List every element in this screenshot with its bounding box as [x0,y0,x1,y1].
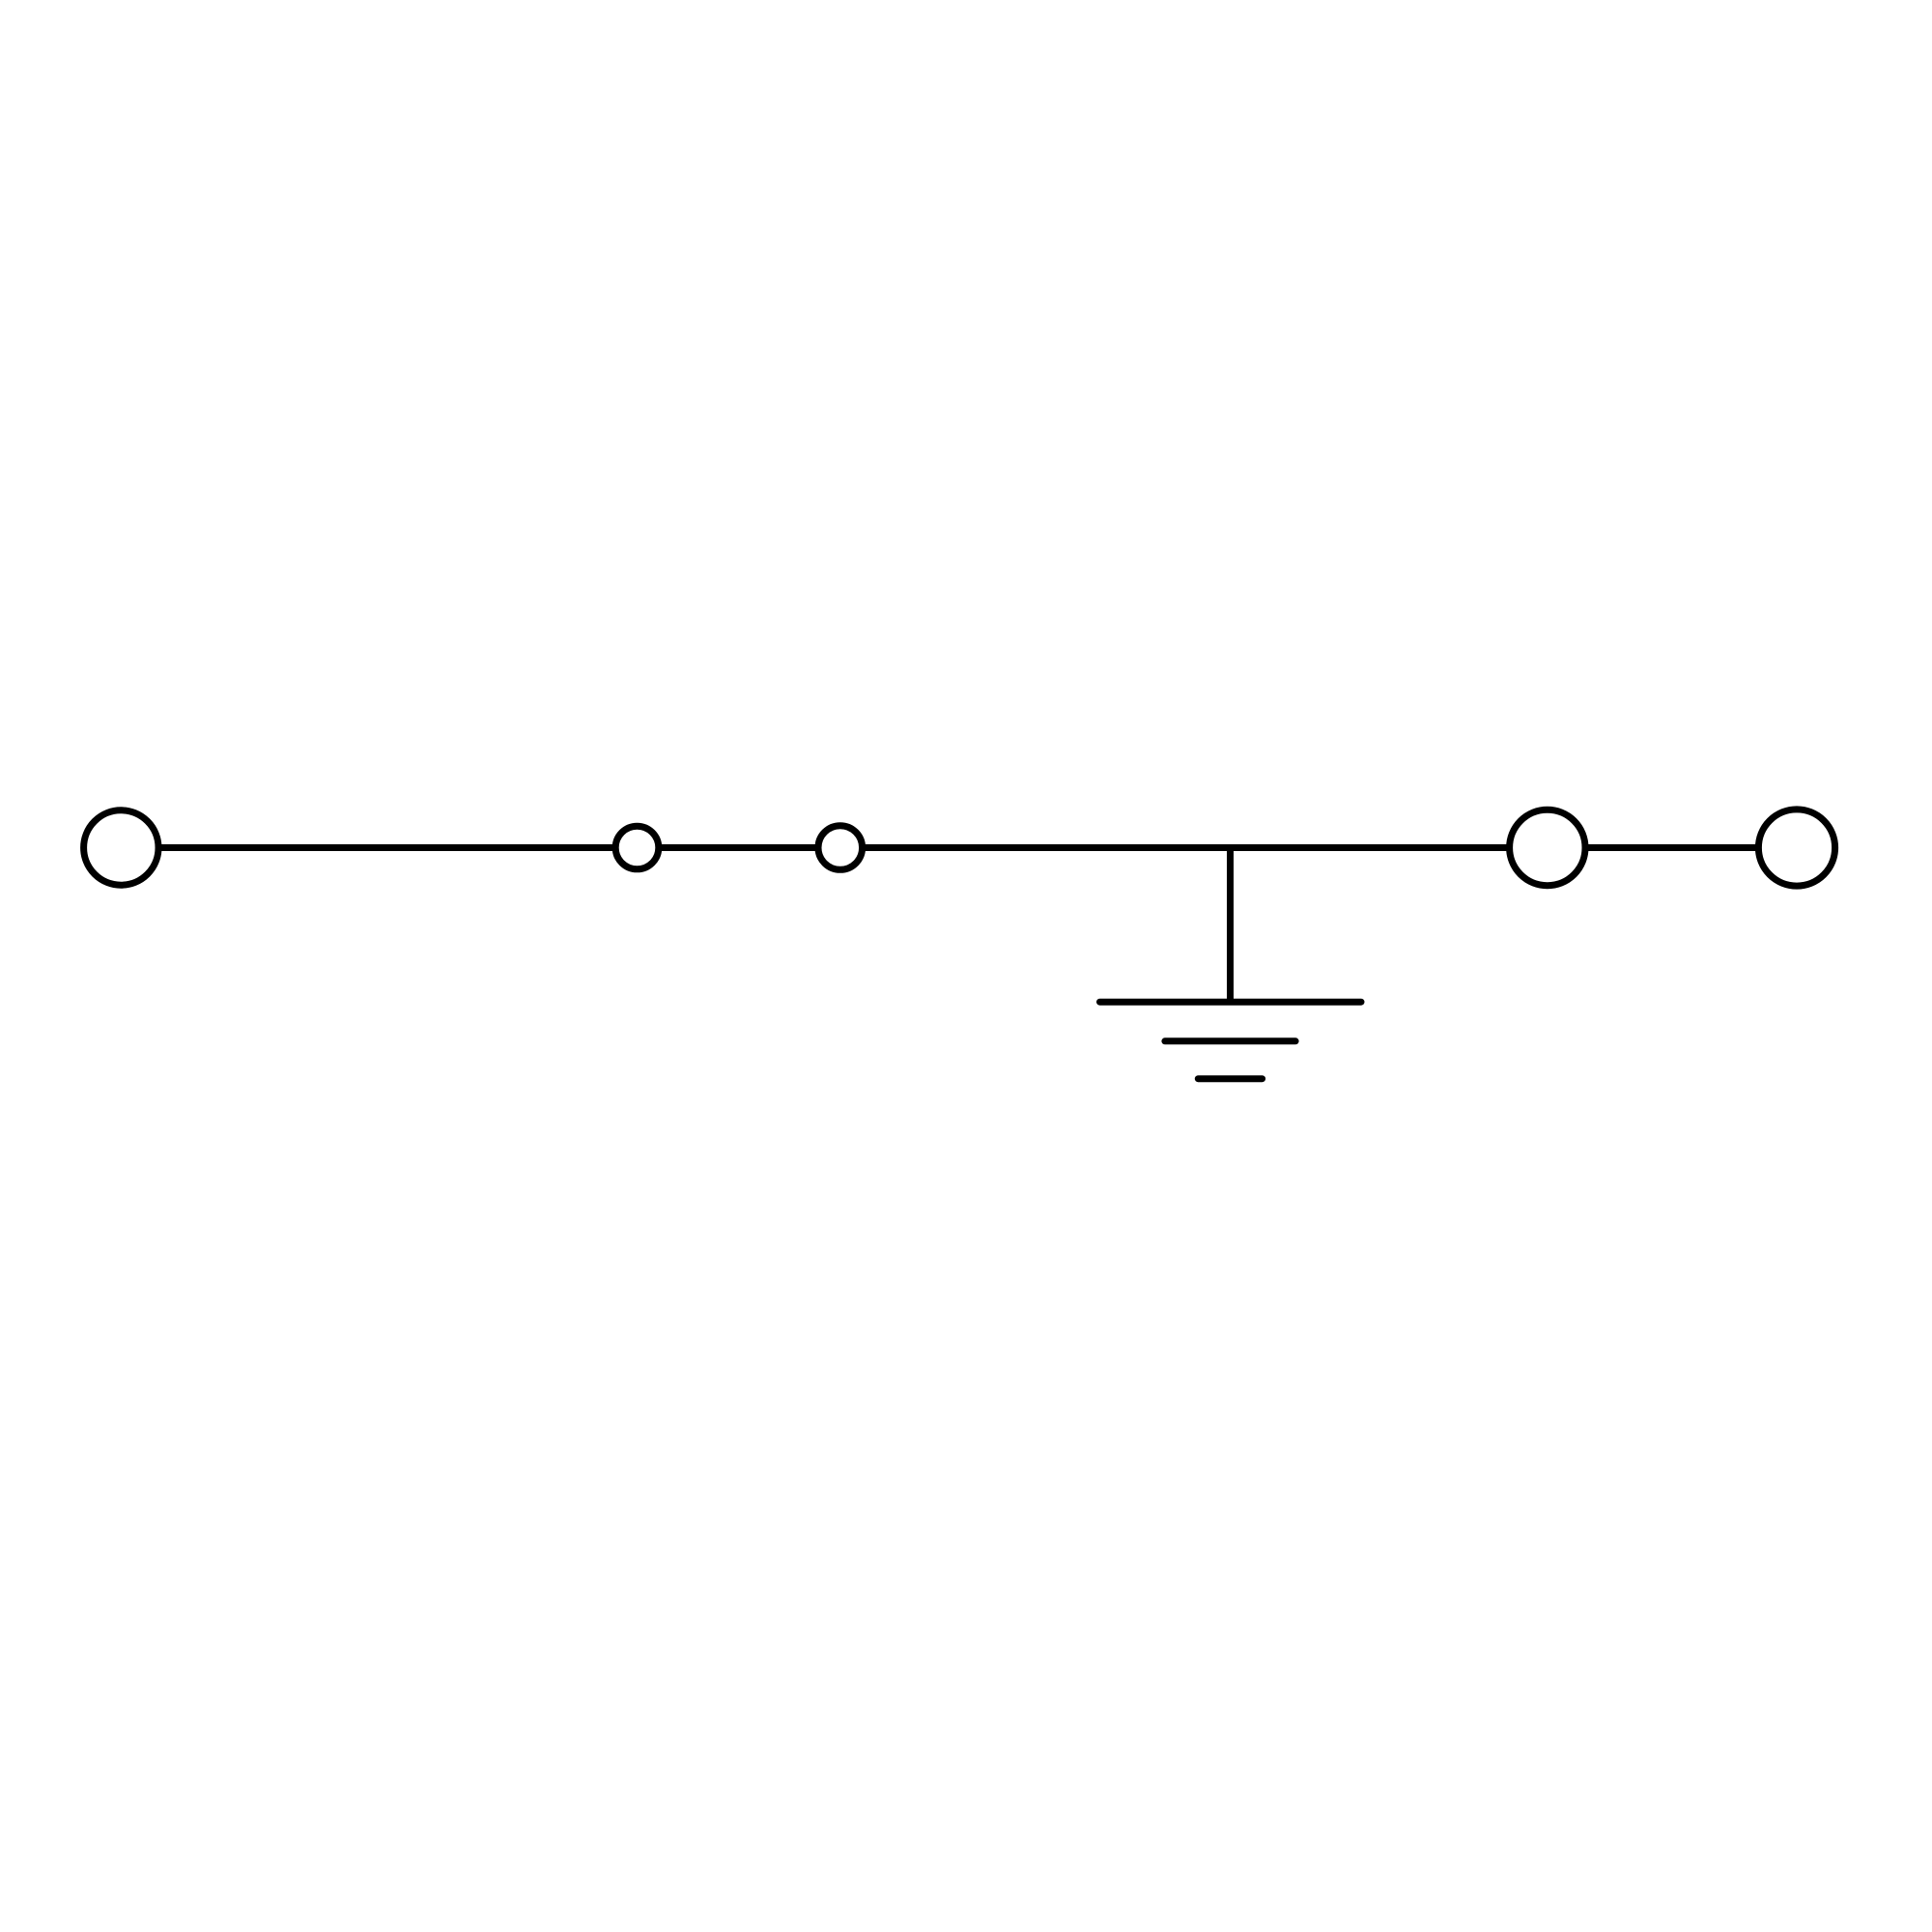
wire (ground stem at junction) [1227,848,1234,1003]
terminal T5 [1758,810,1834,886]
terminal T2 [615,826,659,869]
terminal T4 [1510,810,1585,885]
wire (terminal 4 to terminal 5) [1548,844,1797,851]
ground [1100,1002,1362,1079]
wire (terminal 2 to terminal 3) [638,844,840,851]
wire (terminal 3 to terminal 4, through ground junction) [840,844,1548,851]
terminal T3 [818,826,863,870]
terminal T1 [84,810,158,885]
wire (terminal 1 to terminal 2) [121,844,637,851]
